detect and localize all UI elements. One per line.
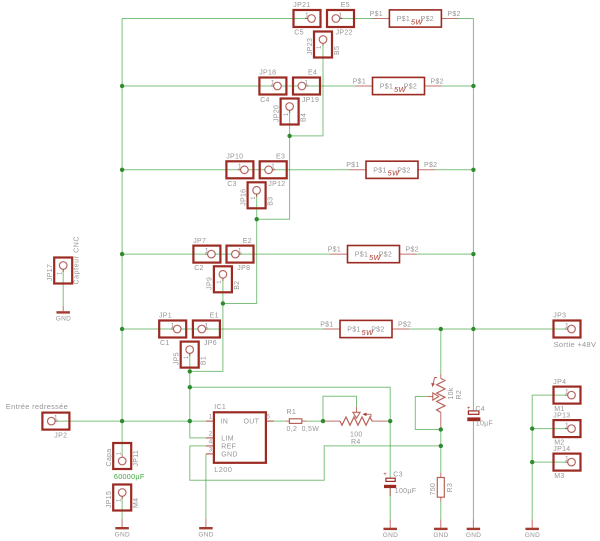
wire motor connectors bus (531, 395, 533, 519)
svg-text:JP11: JP11 (133, 450, 140, 467)
wire row3 resistor P$2 to right bus (435, 169, 473, 171)
wire row5 resistor P$2 to JP3 (+48V) (409, 328, 568, 330)
wire R2 bottom to R3 top (440, 428, 442, 474)
svg-text:JP12: JP12 (268, 181, 285, 188)
svg-text:GND: GND (525, 532, 540, 539)
wire OUT to R1 (274, 420, 286, 422)
svg-text:C3: C3 (227, 181, 237, 188)
connector JP17 box (47, 258, 72, 284)
wire C3 to ground (389, 488, 391, 519)
svg-text:P$1: P$1 (346, 162, 359, 169)
svg-text:1: 1 (338, 12, 342, 19)
ground C4 (466, 520, 481, 540)
svg-text:JP9: JP9 (207, 277, 214, 290)
svg-text:P$2: P$2 (406, 247, 419, 254)
connector E2 (227, 238, 254, 272)
svg-text:1: 1 (116, 452, 122, 456)
svg-text:GND: GND (433, 532, 448, 539)
svg-text:1: 1 (565, 456, 569, 463)
wire row2 E4 to resistor P$1 (306, 85, 356, 87)
ground JP15 (115, 519, 130, 539)
resistor 5W row1 (370, 10, 461, 27)
junction bus JP2/IN (120, 419, 124, 423)
ground motor bus (525, 520, 540, 540)
svg-text:1: 1 (57, 271, 63, 275)
svg-text:P$1: P$1 (320, 321, 333, 328)
junction right bus row5 (471, 327, 475, 331)
svg-text:P$1: P$1 (355, 252, 368, 259)
svg-text:Capa: Capa (106, 449, 113, 467)
svg-text:C4: C4 (260, 97, 270, 104)
svg-text:4: 4 (209, 438, 213, 445)
junction chain B3 (255, 217, 259, 221)
svg-text:GND: GND (221, 452, 237, 459)
connector JP11 box (106, 443, 140, 469)
svg-text:JP1: JP1 (159, 313, 172, 320)
svg-text:GND: GND (466, 532, 481, 539)
wire right bus down to C4 (472, 329, 474, 411)
svg-text:1: 1 (238, 164, 242, 171)
svg-text:1: 1 (205, 248, 209, 255)
svg-text:JP6: JP6 (204, 340, 217, 347)
ground C3 (383, 520, 398, 540)
svg-text:P$2: P$2 (431, 78, 444, 85)
svg-text:JP19: JP19 (302, 97, 319, 104)
wire row5 E1 to resistor P$1 (206, 328, 323, 330)
svg-text:2: 2 (209, 430, 213, 437)
svg-text:Capteur CNC: Capteur CNC (74, 236, 81, 285)
wire row4 bus through JP7 to E2 pin (122, 253, 232, 255)
wire R4 wiper loop (323, 396, 357, 421)
wire to JP4 (532, 394, 567, 396)
junction R1/R4/wiper (321, 419, 325, 423)
svg-text:1: 1 (184, 355, 190, 359)
svg-text:P$1: P$1 (380, 84, 393, 91)
svg-text:JP15: JP15 (106, 491, 113, 508)
wire to JP14 (532, 461, 567, 463)
resistor R1 0,2 0,5W (286, 409, 319, 433)
svg-text:1: 1 (238, 248, 242, 255)
connector JP14 (M3) (553, 446, 580, 480)
svg-text:5W: 5W (388, 169, 400, 178)
svg-text:5W: 5W (411, 17, 423, 26)
svg-text:JP8: JP8 (237, 265, 250, 272)
resistor R3 750 (430, 473, 454, 502)
trimmer R4 100 (325, 407, 388, 446)
svg-text:1: 1 (304, 80, 308, 87)
junction bus row5 (120, 327, 124, 331)
wire B1 node to R4 right node (190, 387, 390, 421)
connector JP5 (174, 342, 208, 368)
svg-text:3: 3 (209, 446, 213, 453)
svg-text:750: 750 (430, 483, 437, 496)
junction chain B2 (221, 301, 225, 305)
resistor 5W row4 (328, 246, 419, 263)
svg-text:5W: 5W (362, 328, 374, 337)
junction R2 wiper (439, 427, 443, 431)
svg-text:P$2: P$2 (398, 321, 411, 328)
svg-text:R1: R1 (287, 409, 297, 416)
svg-text:JP10: JP10 (226, 154, 243, 161)
wire row2 resistor P$2 to right bus (442, 85, 474, 87)
svg-text:B3: B3 (268, 197, 275, 206)
svg-text:E2: E2 (243, 238, 252, 245)
junction chain B1 (188, 369, 192, 373)
svg-text:60000µF: 60000µF (114, 472, 145, 481)
junction chain B4 (287, 134, 291, 138)
svg-text:GND: GND (383, 532, 398, 539)
svg-text:10k: 10k (448, 387, 455, 399)
svg-text:0,2 0,5W: 0,2 0,5W (287, 426, 320, 433)
wire chain B5 to B4 (290, 43, 323, 136)
wire R1 to R4 node (307, 420, 325, 422)
svg-text:5: 5 (266, 414, 270, 421)
svg-text:10µF: 10µF (476, 421, 493, 428)
svg-text:1: 1 (317, 45, 323, 49)
connector JP21 (293, 2, 320, 36)
wire R4 to node (388, 420, 391, 422)
svg-text:B4: B4 (301, 113, 308, 122)
resistor 5W row5 (320, 320, 411, 337)
op-amp regulator IC1 L200 (206, 404, 274, 474)
connector JP4 (M1) (553, 379, 580, 413)
svg-text:1: 1 (305, 12, 309, 19)
junction bus row4 (120, 252, 124, 256)
svg-text:M4: M4 (133, 498, 140, 508)
svg-text:B2: B2 (234, 281, 241, 290)
connector JP9 (207, 266, 241, 292)
svg-text:R4: R4 (351, 439, 361, 446)
junction row5 R2 (439, 327, 443, 331)
connector JP13 (M2) (553, 412, 580, 446)
svg-text:IC1: IC1 (214, 404, 226, 411)
svg-text:JP4: JP4 (553, 379, 566, 386)
svg-text:JP21: JP21 (293, 2, 310, 9)
svg-text:1: 1 (116, 498, 122, 502)
wire R4 node down to C3 (389, 421, 391, 478)
svg-text:REF: REF (221, 444, 236, 451)
svg-text:1: 1 (565, 422, 569, 429)
svg-text:P$1: P$1 (397, 16, 410, 23)
wire row4 E2 to resistor P$1 (239, 253, 330, 255)
svg-text:GND: GND (56, 316, 71, 323)
svg-text:P$1: P$1 (373, 167, 386, 174)
resistor 5W row3 (346, 161, 437, 178)
svg-text:P$2: P$2 (447, 11, 460, 18)
svg-text:OUT: OUT (244, 419, 260, 426)
connector E1 (193, 313, 220, 347)
junction motor bus JP13 (530, 426, 534, 430)
svg-text:JP23: JP23 (307, 38, 314, 55)
svg-text:E4: E4 (308, 70, 317, 77)
svg-text:B5: B5 (334, 46, 341, 55)
svg-text:C2: C2 (194, 265, 204, 272)
connector JP17 (Capteur CNC) (47, 236, 81, 285)
wire row4 resistor P$2 to right bus (417, 253, 474, 255)
svg-text:E3: E3 (276, 154, 285, 161)
svg-text:1: 1 (565, 389, 569, 396)
svg-text:R3: R3 (447, 483, 454, 493)
trimmer R2 10k (428, 374, 463, 428)
wire R3 to ground (440, 502, 442, 520)
svg-text:JP5: JP5 (174, 352, 181, 365)
wire row1 bus to JP21 pin (122, 18, 308, 20)
wire C4 to ground (472, 421, 474, 519)
svg-text:JP18: JP18 (259, 70, 276, 77)
wire chain B3 to B2 (223, 194, 257, 303)
svg-text:Sortie +48V: Sortie +48V (554, 340, 597, 349)
wire chain B2 to B1 (190, 278, 223, 371)
svg-text:L200: L200 (214, 465, 232, 474)
svg-text:JP7: JP7 (193, 238, 206, 245)
connector JP7 (193, 238, 220, 272)
svg-text:P$1: P$1 (328, 247, 341, 254)
junction REF divider (439, 444, 443, 448)
svg-text:M3: M3 (554, 473, 564, 480)
junction IN/LIM (188, 419, 192, 423)
svg-text:1: 1 (217, 280, 223, 284)
connector JP15 (106, 485, 140, 511)
svg-text:Entrée redressée: Entrée redressée (6, 402, 68, 411)
ground JP17 (56, 306, 71, 323)
resistor 5W row2 (353, 77, 444, 94)
wire row3 E3 to resistor P$1 (272, 169, 349, 171)
svg-text:C3: C3 (393, 471, 403, 478)
connector JP10 (226, 154, 253, 188)
connector JP23 (307, 32, 341, 58)
junction right bus row3 (471, 168, 475, 172)
svg-text:B1: B1 (201, 356, 208, 365)
wire REF stub left (190, 445, 206, 447)
svg-text:JP3: JP3 (553, 313, 566, 320)
junction R4/C3 node (388, 419, 392, 423)
svg-text:C1: C1 (160, 340, 170, 347)
svg-text:5W: 5W (394, 85, 406, 94)
svg-text:P$1: P$1 (370, 11, 383, 18)
svg-text:IN: IN (221, 419, 229, 426)
ground R3 (433, 520, 448, 540)
wire chain B4 to B3 (257, 110, 290, 219)
svg-text:E1: E1 (210, 313, 219, 320)
svg-text:GND: GND (198, 531, 213, 538)
wire row5 bus through JP1 to E1 pin (122, 328, 198, 330)
wire left bus Entree redressee vertical (121, 19, 123, 455)
svg-text:GND: GND (115, 531, 130, 538)
svg-text:1: 1 (204, 323, 208, 330)
svg-text:JP14: JP14 (553, 446, 570, 453)
connector JP20 (273, 99, 307, 125)
svg-text:JP20: JP20 (273, 105, 280, 122)
wire row1 resistor P$2 to right bus (458, 18, 473, 20)
connector JP3 (Sortie +48V) (553, 313, 580, 338)
wire JP2 to IC1 IN (54, 420, 206, 422)
connector JP1 (159, 313, 186, 347)
svg-text:P$1: P$1 (347, 327, 360, 334)
wire JP15 to ground (121, 495, 123, 519)
connector JP2 (Entree redressee) (42, 413, 69, 430)
junction B1/R4 branch (188, 385, 192, 389)
svg-text:100µF: 100µF (395, 488, 417, 495)
svg-text:1: 1 (284, 112, 290, 116)
wire JP17 pin to ground (62, 269, 64, 306)
junction bus row2 (120, 84, 124, 88)
junction right bus row4 (471, 252, 475, 256)
svg-text:C4: C4 (475, 406, 485, 413)
svg-text:JP22: JP22 (336, 30, 353, 37)
svg-text:P$2: P$2 (424, 162, 437, 169)
wire to JP13 (532, 428, 567, 430)
connector JP16 (240, 182, 274, 208)
svg-text:JP16: JP16 (240, 189, 247, 206)
wire row3 bus through JP10 to E3 pin (122, 169, 265, 171)
wire IC1 GND pin down (205, 454, 207, 519)
svg-text:1: 1 (54, 415, 58, 422)
svg-text:P$1: P$1 (353, 78, 366, 85)
svg-text:1: 1 (271, 80, 275, 87)
ground IC1 (198, 519, 213, 539)
svg-text:JP17: JP17 (47, 264, 54, 281)
junction bus row3 (120, 168, 124, 172)
svg-text:1: 1 (565, 323, 569, 330)
capacitor C3 100uF (383, 471, 416, 496)
svg-text:LIM: LIM (221, 436, 234, 443)
svg-text:1: 1 (209, 414, 213, 421)
connector E3 (260, 154, 287, 188)
svg-text:100: 100 (350, 432, 363, 439)
wire R2 wiper loop (415, 397, 441, 430)
wire right bus vertical (472, 19, 474, 330)
svg-text:1: 1 (171, 323, 175, 330)
junction right bus row2 (471, 84, 475, 88)
svg-text:1: 1 (271, 164, 275, 171)
svg-text:5W: 5W (369, 253, 381, 262)
connector JP18 (259, 70, 286, 104)
svg-text:C5: C5 (294, 30, 304, 37)
wire REF loop to divider node (190, 446, 441, 480)
svg-text:JP13: JP13 (553, 412, 570, 419)
svg-text:1: 1 (251, 196, 257, 200)
junction motor bus JP14 (530, 460, 534, 464)
wire row2 bus through JP18 to E4 pin (122, 85, 298, 87)
svg-text:R2: R2 (456, 390, 463, 400)
svg-text:JP2: JP2 (54, 432, 67, 439)
connector E5 (327, 2, 354, 36)
capacitor C4 10uF (467, 406, 493, 428)
svg-text:+: + (383, 472, 387, 478)
wire row5 node down to R2 top (440, 329, 442, 374)
connector E4 (293, 70, 320, 104)
wire B1 down to IN node and LIM (190, 353, 206, 438)
wire row1 E5 to resistor P$1 (340, 18, 373, 20)
svg-text:E5: E5 (341, 2, 350, 9)
